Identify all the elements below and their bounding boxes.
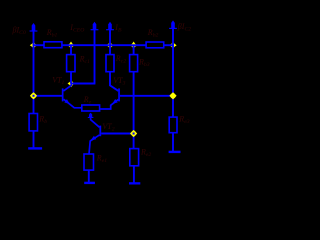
terminal bar T2 bbox=[84, 182, 95, 184]
svg-text:Rc2: Rc2 bbox=[115, 54, 126, 64]
wire N6 collector rail to ICEO column bbox=[71, 83, 95, 85]
wire VT3 base to N8 bbox=[120, 95, 173, 97]
svg-text:Re3: Re3 bbox=[178, 115, 189, 126]
svg-text:Rb: Rb bbox=[38, 114, 47, 125]
wire VT3 emitter lead bbox=[100, 99, 119, 109]
resistor Re3 box (right) bbox=[169, 117, 177, 133]
svg-text:Rb3: Rb3 bbox=[138, 58, 150, 69]
node N3 (rail, above Rc2) bbox=[106, 42, 113, 49]
resistor Rc1 box bbox=[67, 55, 75, 72]
wire right column x=173 bbox=[172, 26, 174, 117]
resistor Rb2 (top right horizontal) bbox=[146, 42, 164, 48]
node N7 center dot bbox=[33, 95, 35, 97]
svg-text:VT3: VT3 bbox=[113, 76, 125, 87]
resistor Rb3 box bbox=[130, 55, 138, 72]
wire Rb to terminal T1 bbox=[33, 131, 35, 149]
svg-text:Rb2: Rb2 bbox=[147, 28, 159, 39]
wire N2 down to Rc1 bbox=[70, 45, 72, 54]
emitter arrowhead VT2 lower bbox=[89, 136, 96, 142]
wire N4 down to Rb3 bbox=[133, 45, 135, 54]
wire I_B column down to Rc2 bbox=[109, 28, 111, 55]
wire Rb3 down through H2 crossing to N9 and Re2 bbox=[133, 72, 135, 149]
svg-text:Rb1: Rb1 bbox=[46, 28, 58, 39]
wire VT2 base to N9 bbox=[101, 133, 133, 135]
svg-text:ICEO: ICEO bbox=[69, 23, 84, 34]
wire VT1 emitter lead bbox=[64, 99, 83, 108]
svg-text:IB: IB bbox=[114, 23, 122, 34]
svg-text:βIC0: βIC0 bbox=[12, 26, 26, 37]
transistor VT1 base bar bbox=[62, 88, 64, 101]
node N7 (VT1 base divider node) bbox=[30, 92, 37, 99]
wire Re3 to terminal T4 bbox=[172, 133, 174, 152]
node N9 center dot bbox=[133, 133, 135, 135]
wire left column x=33.5 bbox=[33, 28, 35, 114]
wire Rc2 down to VT3 collector bbox=[110, 72, 118, 91]
terminal bar T1 bbox=[28, 147, 42, 149]
svg-text:VT2: VT2 bbox=[102, 122, 114, 133]
svg-text:Re2: Re2 bbox=[140, 148, 151, 159]
node N1 (rail left end) bbox=[30, 42, 37, 49]
node N8 (VT3 base divider node) bbox=[169, 92, 176, 99]
resistor Rb1 (top left horizontal) bbox=[44, 42, 62, 48]
arrow current I_CEO up x=94.5 bbox=[91, 22, 99, 31]
wire Rc1 down to N6 bbox=[70, 72, 72, 84]
wire VT1 collector lead bbox=[64, 84, 72, 91]
node N6 (VT1 collector junction) bbox=[68, 80, 75, 87]
arrow current I_C2 up bbox=[169, 20, 177, 29]
resistor Re1 box (bottom left) bbox=[84, 154, 94, 170]
resistor Rc2 box bbox=[106, 55, 114, 72]
arrow current I_B up x=110 bbox=[106, 22, 114, 31]
wire I_CEO column down to collector rail bbox=[94, 28, 96, 84]
node N4 (rail, above Rb3) bbox=[130, 42, 137, 49]
node N9 (VT2 base node) bbox=[130, 130, 137, 137]
svg-text:VT1: VT1 bbox=[52, 75, 64, 86]
resistor Rb (left) box bbox=[29, 114, 37, 131]
wire Re1 to terminal T2 bbox=[88, 170, 90, 182]
terminal bar T4 bbox=[169, 151, 181, 153]
svg-text:βIC2: βIC2 bbox=[177, 22, 191, 33]
node N2 (rail, above Rc1) bbox=[67, 42, 74, 49]
emitter arrowhead VT3 bbox=[111, 99, 118, 106]
transistor VT2 base bar bbox=[99, 126, 101, 137]
wire Re2 to terminal T3 bbox=[133, 166, 135, 184]
emitter arrowhead VT1 bbox=[64, 99, 71, 106]
resistor Re box (horizontal, emitters) bbox=[82, 105, 100, 111]
resistor Re2 box bbox=[130, 149, 139, 166]
wire VT2 upper emitter lead bbox=[91, 113, 100, 127]
wire top rail segment A bbox=[33, 44, 44, 46]
wire VT1 base from N7 bbox=[34, 95, 63, 97]
wire top rail segment C bbox=[164, 44, 174, 46]
transistor VT3 base bar bbox=[118, 88, 120, 101]
emitter arrow VT2 up bbox=[88, 113, 94, 118]
svg-text:Rc1: Rc1 bbox=[79, 55, 90, 66]
terminal bar T3 bbox=[129, 182, 140, 184]
arrow current I_C0 up bbox=[30, 23, 38, 32]
svg-text:Re: Re bbox=[83, 95, 92, 106]
svg-text:Re1: Re1 bbox=[96, 154, 107, 165]
wire VT2 lower lead to Re1 bbox=[89, 135, 100, 154]
node N5 (rail right end) bbox=[169, 42, 176, 49]
wire top rail segment B bbox=[62, 44, 146, 46]
